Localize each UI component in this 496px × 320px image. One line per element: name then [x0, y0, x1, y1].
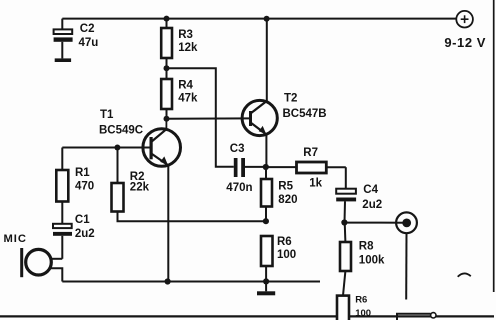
capacitor C4 [336, 167, 356, 222]
wire T2 collector to rail [266, 19, 268, 102]
R5 labels [278, 181, 297, 207]
svg-text:47u: 47u [79, 37, 99, 49]
capacitor C2 [54, 19, 73, 59]
bottom border line [0, 315, 494, 317]
resistor R6 [261, 236, 273, 281]
svg-text:T1: T1 [100, 109, 114, 121]
C2 value label [79, 23, 99, 49]
wire to output jack [344, 222, 406, 224]
C3 labels [226, 143, 252, 194]
svg-text:R5: R5 [278, 181, 293, 193]
svg-text:C1: C1 [75, 214, 90, 226]
MIC label [4, 233, 27, 245]
resistor R8 [340, 223, 351, 296]
wire jack sleeve down [405, 233, 407, 299]
C1 labels [75, 214, 95, 240]
svg-text:100: 100 [355, 308, 371, 319]
output jack [396, 212, 417, 233]
svg-text:R6: R6 [355, 295, 367, 306]
resistor R1 [56, 170, 68, 224]
R7 labels [303, 147, 322, 189]
microphone MIC [20, 248, 62, 282]
svg-text:2u2: 2u2 [362, 199, 382, 211]
svg-text:47k: 47k [178, 93, 198, 105]
svg-text:BC547B: BC547B [283, 108, 327, 120]
svg-text:R8: R8 [359, 240, 374, 252]
node T1 emitter / rail [165, 278, 171, 284]
wire T1 base [62, 147, 151, 149]
C4 labels [362, 184, 382, 211]
node C4 / R8 / jack [341, 219, 347, 225]
ground (below C2) [55, 58, 71, 62]
svg-text:470: 470 [75, 181, 94, 193]
svg-text:9-12 V: 9-12 V [444, 35, 486, 50]
R4 labels [178, 80, 198, 105]
node T1 base / R1 / R2 [114, 145, 120, 151]
svg-text:820: 820 [278, 194, 297, 206]
svg-text:BC549C: BC549C [99, 124, 143, 136]
node R5 / R6 / R2 wire [263, 218, 269, 224]
node R4 / T1 collector / T2 base [164, 116, 170, 122]
svg-text:R3: R3 [178, 29, 193, 41]
R8 labels [359, 240, 385, 266]
R2 labels [130, 171, 150, 194]
resistor (second copy, bottom right, clipped) [397, 313, 436, 320]
node top rail / T2 collector [264, 16, 270, 22]
wire T1 collector to T2 base [167, 117, 251, 119]
wire T1 emitter down [167, 165, 169, 281]
T1 labels [99, 109, 143, 136]
node C3 / T2 emitter / R5 / R7 [263, 164, 269, 170]
wire top supply rail [62, 18, 456, 20]
R1 labels [75, 167, 94, 193]
svg-text:C3: C3 [230, 143, 245, 155]
wire R1 top from base wire [61, 148, 63, 171]
svg-text:R4: R4 [178, 80, 193, 92]
capacitor C1 [53, 224, 72, 259]
supply voltage label [444, 35, 486, 50]
wire bottom ground rail [62, 281, 320, 283]
resistor R4 [161, 68, 172, 119]
svg-text:R1: R1 [75, 167, 90, 179]
resistor R5 [261, 167, 272, 221]
T2 labels [283, 93, 327, 120]
arc mark (watermark remnant) [458, 273, 471, 276]
power terminal + [456, 11, 473, 28]
wire feedback from R3/R4 junction to C3 [167, 68, 234, 167]
svg-text:C4: C4 [363, 184, 378, 196]
svg-text:100k: 100k [359, 254, 385, 266]
right border line [493, 0, 495, 292]
svg-text:12k: 12k [178, 42, 198, 54]
svg-text:T2: T2 [284, 93, 297, 105]
resistor R7 [266, 162, 346, 173]
svg-text:470n: 470n [226, 182, 252, 194]
ground symbol [257, 281, 275, 295]
wire R2 to R5/R6 junction [118, 212, 266, 222]
svg-text:100: 100 [277, 249, 296, 261]
resistor R2 [112, 148, 124, 212]
svg-text:R6: R6 [277, 236, 292, 248]
svg-text:2u2: 2u2 [75, 228, 95, 240]
svg-text:C2: C2 [80, 23, 95, 35]
R6 copy labels [355, 295, 371, 319]
svg-text:MIC: MIC [4, 233, 27, 245]
R6 labels [277, 236, 296, 261]
node top rail / R3 [164, 16, 170, 22]
transistor T2 [242, 100, 277, 135]
wire T2 emitter down [265, 134, 267, 167]
resistor R6 (second schematic copy, clipped) [337, 296, 349, 320]
R3 labels [178, 29, 198, 54]
svg-text:22k: 22k [130, 182, 150, 194]
capacitor C3 [234, 158, 266, 177]
node R6 / rail / ground [263, 278, 269, 284]
svg-text:R7: R7 [303, 147, 318, 159]
resistor R3 [161, 19, 172, 69]
node R3/R4 junction [164, 65, 170, 71]
transistor T1 [143, 119, 181, 166]
svg-text:1k: 1k [309, 177, 322, 189]
